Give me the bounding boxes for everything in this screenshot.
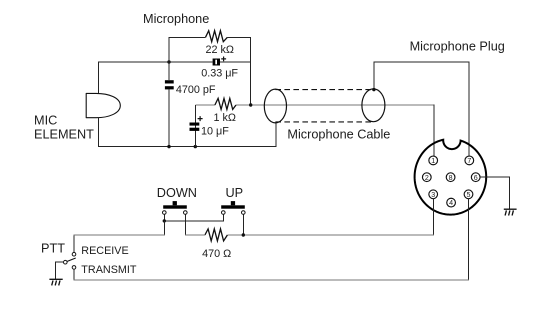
wire transmit to pin5 xyxy=(74,198,468,280)
ground chassis at ptt xyxy=(49,279,62,285)
contact up-right xyxy=(242,211,246,215)
svg-text:1: 1 xyxy=(431,157,435,165)
cable shield dashed top xyxy=(275,89,374,91)
svg-text:22 kΩ: 22 kΩ xyxy=(206,44,234,56)
wire down-left to up-left link xyxy=(164,214,223,221)
node mic hot junction dot xyxy=(167,60,170,63)
pin 7 xyxy=(465,156,474,165)
wire pin6 to chassis ground xyxy=(480,177,510,209)
wire 10uF branch xyxy=(194,105,196,147)
wire pin3 to updown bus xyxy=(432,198,434,235)
wire shield to plug pin7 xyxy=(374,62,469,156)
cable right ellipse xyxy=(362,89,385,122)
wire ptt pole to ground xyxy=(55,262,63,279)
wire mic element bottom to ground rail xyxy=(99,118,277,147)
svg-text:ELEMENT: ELEMENT xyxy=(34,128,94,142)
wire up-right contact drop xyxy=(242,214,244,235)
microphone element symbol xyxy=(86,93,120,117)
cable shield dashed bottom xyxy=(275,121,374,123)
svg-text:RECEIVE: RECEIVE xyxy=(81,245,128,257)
svg-text:Microphone Cable: Microphone Cable xyxy=(287,127,390,141)
svg-text:2: 2 xyxy=(425,174,429,182)
pin 5 xyxy=(464,190,473,199)
wire 22k top loop xyxy=(169,37,251,105)
svg-text:4: 4 xyxy=(449,199,453,207)
wire down-right contact to resistor xyxy=(184,214,186,235)
wire audio line with 1k xyxy=(195,104,434,106)
polarity plus for 10uF xyxy=(198,116,203,121)
pin 3 xyxy=(429,190,438,199)
svg-text:Microphone: Microphone xyxy=(143,12,209,26)
svg-text:4700 pF: 4700 pF xyxy=(176,84,216,96)
svg-text:DOWN: DOWN xyxy=(157,186,197,200)
svg-text:0.33 μF: 0.33 μF xyxy=(201,68,238,80)
wire down-right to resistor horizontal xyxy=(185,234,205,236)
node junction up-right on bus xyxy=(242,233,245,236)
label MIC ELEMENT xyxy=(34,114,94,142)
node audio junction dot xyxy=(249,103,252,106)
svg-text:5: 5 xyxy=(467,191,471,199)
wire mic hot node horizontal xyxy=(99,62,251,93)
pin 8 xyxy=(446,173,455,182)
wire 4700pF branch xyxy=(168,62,170,147)
wire receive horizontal xyxy=(73,234,164,236)
pushbutton UP cap xyxy=(221,201,245,209)
contact ptt pole xyxy=(64,260,68,264)
capacitor 10uF plates xyxy=(190,123,200,131)
wire transmit horizontal xyxy=(74,279,469,281)
wire updown bus horizontal xyxy=(227,234,433,236)
svg-text:1 kΩ: 1 kΩ xyxy=(214,112,236,124)
svg-text:7: 7 xyxy=(467,157,471,165)
contact transmit xyxy=(72,266,76,270)
svg-text:TRANSMIT: TRANSMIT xyxy=(81,264,137,276)
pin 6 xyxy=(471,173,480,182)
resistor 1 kOhm xyxy=(215,98,236,109)
pushbutton DOWN cap xyxy=(163,201,187,209)
ground chassis at pin6 xyxy=(504,209,517,215)
contact up-left xyxy=(222,211,226,215)
resistor 470 Ohm xyxy=(205,229,228,241)
polarity plus for 0.33uF xyxy=(221,57,226,62)
pin 1 xyxy=(429,156,438,165)
wire receive to down-left xyxy=(74,221,164,252)
contact down-right xyxy=(184,211,188,215)
svg-text:MIC: MIC xyxy=(34,114,57,128)
wire pin1 drop xyxy=(433,105,435,157)
svg-text:470 Ω: 470 Ω xyxy=(202,248,231,260)
svg-text:Microphone Plug: Microphone Plug xyxy=(410,40,505,54)
node rail junction at 10uF xyxy=(194,145,197,148)
svg-text:3: 3 xyxy=(431,191,435,199)
cable left ellipse xyxy=(264,89,286,123)
pin 4 xyxy=(447,198,456,207)
svg-text:10 μF: 10 μF xyxy=(201,125,229,137)
node rail junction at 4700pF xyxy=(167,145,170,148)
svg-text:6: 6 xyxy=(474,174,478,182)
svg-text:PTT: PTT xyxy=(41,241,65,255)
pin 2 xyxy=(422,173,431,182)
contact receive xyxy=(72,252,76,256)
microphone plug body with notch xyxy=(415,140,487,215)
node shield junction dot xyxy=(372,88,375,91)
resistor 22 kOhm xyxy=(206,31,228,42)
node junction down-left tee xyxy=(163,219,166,222)
capacitor 4700pF plates xyxy=(165,80,174,89)
capacitor 0.33uF plates xyxy=(213,59,220,66)
switch lever xyxy=(67,258,76,262)
svg-text:8: 8 xyxy=(449,174,453,182)
svg-text:UP: UP xyxy=(226,186,244,200)
contact down-left xyxy=(163,211,167,215)
